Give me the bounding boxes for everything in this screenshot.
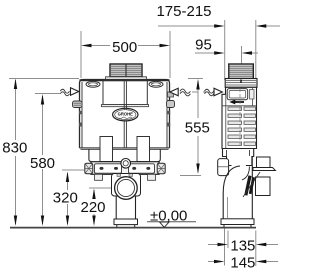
svg-text:135: 135: [230, 238, 255, 255]
svg-text:145: 145: [230, 255, 255, 272]
svg-text:±0,00: ±0,00: [150, 207, 187, 224]
svg-text:580: 580: [30, 155, 55, 172]
svg-text:555: 555: [185, 119, 210, 136]
svg-text:GROHE: GROHE: [118, 112, 134, 117]
svg-text:220: 220: [80, 199, 105, 216]
svg-text:95: 95: [195, 37, 212, 54]
svg-text:175-215: 175-215: [156, 3, 211, 20]
svg-text:500: 500: [112, 39, 137, 56]
svg-text:830: 830: [2, 139, 27, 156]
svg-text:320: 320: [53, 190, 78, 207]
